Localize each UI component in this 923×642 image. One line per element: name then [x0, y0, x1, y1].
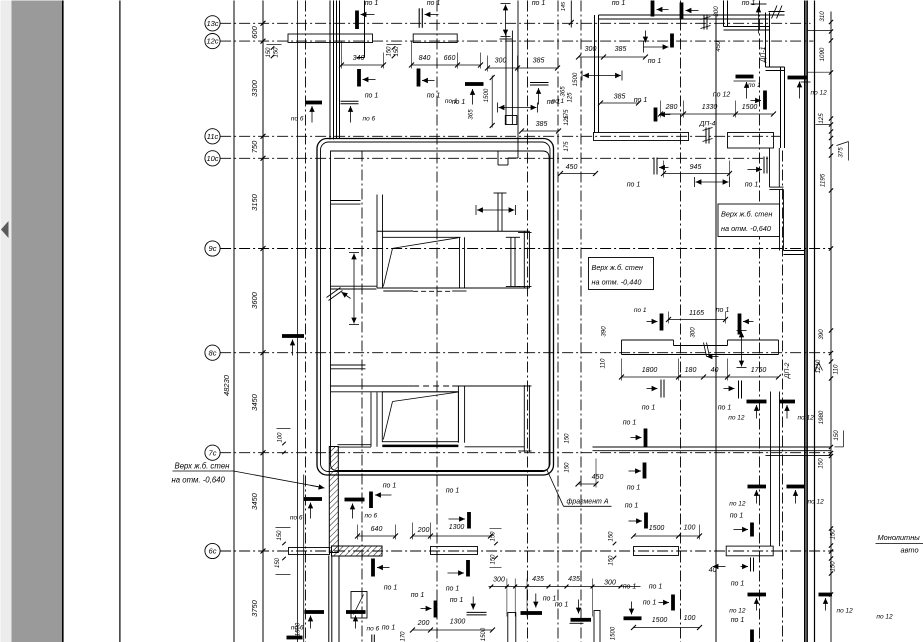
- hatched wall horizontal: [332, 546, 383, 556]
- svg-text:385: 385: [533, 58, 545, 65]
- mark hbar 465: [445, 82, 484, 105]
- svg-text:435: 435: [568, 576, 580, 583]
- svg-text:100: 100: [684, 525, 696, 532]
- rot dim 1500 x484: [481, 627, 487, 641]
- svg-text:по 1: по 1: [634, 307, 647, 314]
- vertical dim arrow between stairs: [349, 253, 359, 325]
- svg-text:ДП-2: ДП-2: [784, 362, 791, 379]
- svg-text:по 1: по 1: [547, 99, 561, 106]
- mark x370 y491: [369, 483, 396, 509]
- labels po1 below 7c: [625, 485, 641, 510]
- mark x434 y600: [411, 586, 464, 618]
- dim 280 1330 1500: [658, 101, 776, 118]
- svg-text:авто: авто: [901, 546, 919, 555]
- svg-text:600: 600: [250, 25, 259, 38]
- wall band 11c right: [728, 133, 774, 149]
- wall rect 6c mid: [431, 547, 478, 555]
- vertical dblarrow x505: [500, 4, 513, 40]
- dim 200 1300 y529: [410, 523, 493, 540]
- vertical line x297: [297, 1, 299, 642]
- svg-text:150: 150: [565, 433, 571, 444]
- svg-text:по 1: по 1: [446, 586, 460, 593]
- dimension 150 150 at 12c: [266, 45, 282, 59]
- svg-text:450: 450: [715, 41, 722, 52]
- vertical grid x580: [580, 1, 582, 642]
- grid bubble 7c: [205, 445, 220, 460]
- svg-text:по 1: по 1: [731, 581, 745, 588]
- dp2 label: [784, 362, 791, 379]
- svg-text:по 12: по 12: [876, 614, 893, 621]
- svg-text:365: 365: [468, 109, 475, 120]
- svg-text:7с: 7с: [209, 448, 217, 457]
- dp1 label: [760, 46, 767, 63]
- svg-text:на отм. -0,640: на отм. -0,640: [172, 476, 226, 485]
- grid line 6c: [220, 550, 833, 552]
- svg-text:по 12: по 12: [729, 501, 746, 508]
- dim 385 y96: [598, 94, 641, 106]
- marks y497: [290, 497, 378, 521]
- vertical grid x527: [527, 1, 529, 642]
- note box -0,440: [589, 258, 654, 290]
- label po12 x721: [713, 92, 731, 99]
- top right wall x723: [724, 1, 728, 27]
- wall pair x336 top: [337, 1, 340, 139]
- dim 1500 100 y620: [631, 615, 702, 630]
- svg-text:150: 150: [830, 561, 837, 572]
- dim 300 385 right: [576, 46, 648, 59]
- dim 945: [661, 161, 732, 178]
- wall y250 segment: [784, 251, 805, 255]
- top right wall x765: [766, 13, 770, 68]
- svg-text:3150: 3150: [250, 193, 259, 211]
- svg-text:1500: 1500: [649, 525, 665, 532]
- grid x361 in room: [361, 151, 363, 642]
- svg-text:150: 150: [387, 46, 393, 57]
- svg-text:по 1: по 1: [718, 405, 732, 412]
- svg-text:450: 450: [592, 474, 604, 481]
- svg-text:Верх ж.б. стен: Верх ж.б. стен: [175, 462, 231, 471]
- dim 1165: [666, 310, 728, 324]
- right dim 150: [818, 458, 825, 469]
- grid bubble 10c: [205, 151, 220, 166]
- grid bubble 12c: [205, 34, 220, 49]
- svg-text:по 1: по 1: [384, 585, 398, 592]
- right dim 390: [818, 329, 825, 340]
- svg-text:по 6: по 6: [365, 513, 378, 520]
- wall line x715: [715, 15, 717, 642]
- grid line 12c: [220, 40, 813, 42]
- rebar mark row top: [355, 1, 698, 30]
- wall below hatch: [329, 556, 339, 642]
- dimension 3600: [250, 291, 259, 309]
- svg-text:1500: 1500: [742, 104, 758, 111]
- interior wall y285: [331, 286, 377, 289]
- dim 40 6c: [709, 564, 726, 574]
- vertical grid x782: [782, 151, 784, 642]
- svg-text:по 1: по 1: [745, 182, 759, 189]
- svg-text:по 1: по 1: [649, 584, 663, 591]
- grid line 8c: [220, 352, 831, 354]
- svg-text:по 12: по 12: [713, 92, 731, 99]
- interior wall y364: [331, 365, 366, 369]
- svg-text:1165: 1165: [689, 310, 704, 317]
- mark x645 y428: [623, 420, 648, 447]
- dim 1500 100 y529: [631, 525, 702, 540]
- svg-text:по 1: по 1: [427, 0, 441, 7]
- mark hbar 818 y594: [819, 593, 854, 615]
- svg-text:340: 340: [353, 55, 365, 62]
- right dim 310: [819, 11, 826, 22]
- svg-text:150: 150: [266, 47, 272, 58]
- svg-text:150: 150: [275, 557, 281, 568]
- dimension 3150: [250, 193, 259, 211]
- mark dblline 530: [530, 83, 564, 106]
- svg-text:по 1: по 1: [716, 307, 730, 314]
- section mark left wall: [327, 288, 351, 301]
- dblarrow 945: [695, 177, 730, 187]
- section mark x751: [741, 558, 754, 572]
- section pair x372 bottom: [372, 635, 375, 642]
- bottom stair outline: [351, 592, 367, 619]
- grid bubble 8c: [205, 345, 220, 360]
- upper stair neck wall: [494, 193, 507, 231]
- label po1 x736 y516: [730, 513, 744, 520]
- svg-text:640: 640: [371, 526, 383, 533]
- top wall notch: [498, 151, 518, 165]
- dimension 3450: [250, 393, 259, 411]
- scrollbar track strip: [1, 1, 12, 642]
- section mark 8c band: [704, 343, 710, 357]
- svg-text:385: 385: [615, 46, 627, 53]
- svg-text:1300: 1300: [450, 619, 466, 626]
- wall rect 6c far right: [726, 546, 773, 556]
- mark hbar 570 y619: [570, 600, 592, 624]
- mark x372 y559: [371, 559, 397, 592]
- svg-text:по 1: по 1: [365, 93, 379, 100]
- svg-text:фрагмент А: фрагмент А: [567, 499, 609, 506]
- rot dims 1500 365 left: [560, 72, 580, 97]
- svg-text:750: 750: [250, 140, 259, 153]
- dimension ticks right chain: [829, 20, 833, 597]
- right dim 110: [833, 364, 840, 374]
- svg-text:по 1: по 1: [748, 82, 761, 89]
- mark hbar 786 y486: [787, 485, 825, 506]
- svg-text:840: 840: [419, 55, 431, 62]
- svg-text:150: 150: [565, 462, 571, 473]
- svg-text:125: 125: [564, 115, 570, 126]
- svg-text:по 1: по 1: [383, 483, 397, 490]
- mark x671 y33: [643, 31, 674, 53]
- rot dims 365 1500 center: [468, 75, 495, 128]
- svg-text:300: 300: [604, 579, 616, 586]
- svg-text:310: 310: [819, 11, 826, 22]
- svg-text:ДП-4: ДП-4: [699, 121, 716, 128]
- svg-text:Монолитны: Монолитны: [878, 533, 921, 542]
- svg-text:1210: 1210: [815, 359, 822, 373]
- dimension 3300: [250, 79, 259, 97]
- svg-text:40: 40: [711, 367, 719, 374]
- wall thick x805: [805, 1, 807, 642]
- svg-text:110: 110: [600, 358, 607, 368]
- svg-text:1195: 1195: [820, 173, 827, 187]
- svg-text:Верх ж.б. стен: Верх ж.б. стен: [592, 263, 643, 272]
- label po1 x452: [446, 488, 471, 529]
- svg-text:по 12: по 12: [808, 499, 825, 506]
- mark x358: [357, 69, 378, 100]
- vertical grid x680: [680, 1, 682, 642]
- mark x661 y313: [634, 307, 664, 331]
- svg-text:375: 375: [838, 147, 845, 158]
- mark dblhbar 465 y612: [467, 597, 487, 615]
- vert dblarrow x741: [737, 331, 747, 368]
- svg-text:по 1: по 1: [427, 93, 441, 100]
- svg-text:9с: 9с: [209, 244, 217, 253]
- svg-text:435: 435: [532, 576, 544, 583]
- mark vbar 751 bottom: [750, 630, 754, 642]
- dim 840 660: [409, 42, 483, 69]
- wall band 8c: [622, 340, 779, 355]
- mark x739 y313: [716, 307, 754, 335]
- grid bubble 9c: [205, 241, 220, 256]
- svg-text:1500: 1500: [296, 622, 302, 636]
- hatch pattern def: [0, 0, 2, 2]
- svg-text:13с: 13с: [206, 19, 218, 28]
- right dim 1210: [815, 359, 822, 373]
- section mark top right: [769, 6, 785, 19]
- right dim 150: [830, 561, 837, 572]
- svg-text:по 6: по 6: [363, 116, 376, 123]
- svg-text:145: 145: [561, 1, 567, 11]
- svg-text:48230: 48230: [222, 374, 231, 396]
- svg-text:300: 300: [495, 58, 507, 65]
- svg-text:по 1: по 1: [625, 503, 639, 510]
- svg-text:300: 300: [585, 46, 597, 53]
- svg-text:по 12: по 12: [837, 608, 854, 615]
- mark hbar 787 y77: [788, 76, 828, 99]
- svg-text:150: 150: [491, 531, 497, 542]
- lower stair block: [331, 385, 532, 452]
- svg-text:150: 150: [274, 47, 280, 58]
- svg-text:1800: 1800: [642, 367, 658, 374]
- section mark x662: [642, 380, 664, 412]
- ramp room inner wall: [331, 151, 550, 471]
- dimension 48230: [222, 374, 231, 396]
- rot dim 300 x717: [713, 6, 720, 17]
- ramp room outer inner line: [321, 142, 551, 472]
- svg-text:1760: 1760: [751, 367, 767, 374]
- svg-text:1980: 1980: [818, 410, 825, 424]
- svg-text:150: 150: [818, 458, 825, 469]
- break mark 1210: [815, 363, 823, 373]
- double arrow y107: [498, 103, 538, 113]
- wall rect 6c right: [634, 547, 679, 556]
- svg-text:по 1: по 1: [627, 485, 641, 492]
- dim 450 y167: [558, 164, 598, 176]
- label po 1 top: [532, 0, 546, 7]
- sidebar collapse triangle: [1, 221, 9, 238]
- vertical line x303 bottom: [303, 475, 305, 642]
- bottom marks hbars: [291, 610, 396, 632]
- rot dim 125 y96: [568, 92, 574, 103]
- svg-text:150: 150: [609, 531, 615, 542]
- svg-text:6с: 6с: [209, 547, 217, 556]
- wall x769 segment: [770, 148, 780, 187]
- right dim 125: [818, 113, 825, 124]
- labels po1 6c right: [731, 617, 745, 624]
- mark x764 y90: [751, 91, 767, 110]
- svg-text:по 1: по 1: [623, 584, 637, 591]
- svg-text:150: 150: [833, 430, 840, 441]
- mark hbar 623 y618: [624, 600, 657, 621]
- grid bubble 11c: [205, 129, 220, 144]
- top right room top wall: [599, 15, 769, 19]
- grid line 10c: [220, 157, 769, 159]
- label po 1 top: [365, 0, 379, 7]
- mark hbar 281 y335: [282, 334, 304, 355]
- wall x782 segment: [780, 190, 784, 251]
- dim 385 y124: [519, 121, 561, 133]
- svg-text:1500: 1500: [483, 88, 490, 102]
- wall x364 top: [357, 1, 365, 58]
- svg-text:390: 390: [601, 326, 608, 337]
- svg-text:по 12: по 12: [811, 90, 828, 97]
- dimension 750: [250, 140, 259, 153]
- svg-text:8с: 8с: [209, 348, 217, 357]
- svg-text:945: 945: [690, 164, 702, 171]
- rot dim 125 y119: [564, 115, 570, 126]
- svg-text:по 1: по 1: [411, 592, 425, 599]
- svg-text:3450: 3450: [250, 393, 259, 411]
- grid line 7c: [220, 452, 831, 454]
- dimension 150 150 at 6c: [275, 528, 291, 575]
- svg-text:150: 150: [830, 529, 837, 540]
- wall y188 segment: [770, 187, 784, 189]
- svg-text:3750: 3750: [250, 599, 259, 617]
- svg-text:по 1: по 1: [627, 182, 641, 189]
- dimension 3750 bottom: [253, 597, 255, 599]
- top right room left wall: [595, 15, 599, 133]
- svg-text:по 1: по 1: [742, 0, 756, 7]
- svg-text:385: 385: [536, 121, 548, 128]
- top right wall y26: [724, 27, 770, 31]
- svg-text:11с: 11с: [207, 132, 219, 141]
- svg-text:385: 385: [614, 94, 626, 101]
- no1 labels y102: [452, 99, 561, 106]
- grid line 11c: [220, 135, 780, 137]
- svg-text:660: 660: [444, 55, 456, 62]
- dimension 3750: [250, 599, 259, 617]
- mark 12c left pair: [291, 101, 376, 123]
- svg-text:по 12: по 12: [798, 415, 815, 422]
- labels po1 x629: [623, 584, 637, 591]
- rot dims 390 300 8c: [600, 326, 697, 369]
- svg-text:по 12: по 12: [728, 415, 745, 422]
- label po1 x737: [731, 581, 745, 588]
- label po 1 top: [427, 0, 441, 7]
- mark hbar 779 y401: [780, 400, 815, 422]
- mark x644 y462: [629, 463, 647, 479]
- label po 1 top: [742, 0, 756, 7]
- left border vertical: [233, 1, 235, 642]
- svg-text:450: 450: [566, 164, 578, 171]
- svg-text:12с: 12с: [206, 37, 218, 46]
- top right wall x780: [781, 67, 785, 148]
- svg-text:1300: 1300: [449, 524, 465, 531]
- svg-text:1090: 1090: [819, 47, 826, 61]
- right dim 375: [838, 147, 845, 158]
- left note -0,640: [172, 462, 325, 490]
- dimension 100 at 7c: [277, 429, 291, 455]
- rot dim 175 y114: [564, 109, 570, 120]
- svg-text:10с: 10с: [206, 154, 218, 163]
- wall pair x329 top: [330, 1, 334, 140]
- dim 640: [355, 525, 398, 540]
- svg-text:по 1: по 1: [648, 58, 662, 65]
- svg-text:1500: 1500: [572, 72, 579, 86]
- right dim 1980: [818, 410, 825, 424]
- mark x672 y594: [649, 584, 675, 611]
- no1 labels y184: [627, 182, 759, 189]
- wall rect 12c right: [413, 34, 457, 43]
- labels po1 bottom center: [543, 596, 569, 609]
- svg-text:280: 280: [665, 104, 678, 111]
- rot dims 150 150 7c: [565, 433, 571, 473]
- svg-text:по 1: по 1: [612, 0, 626, 7]
- svg-text:по 1: по 1: [446, 488, 460, 495]
- svg-text:по 6: по 6: [367, 626, 380, 633]
- svg-text:125: 125: [568, 92, 574, 103]
- right dim 150: [830, 529, 837, 540]
- svg-text:по 1: по 1: [643, 600, 657, 607]
- fragment A label: [547, 470, 612, 506]
- svg-text:180: 180: [685, 367, 697, 374]
- dimension ticks on left chain: [261, 21, 266, 554]
- section marks 10c: [654, 157, 767, 175]
- svg-text:по 1: по 1: [634, 97, 648, 104]
- grid bubble 13c: [205, 16, 220, 31]
- section mark x705 top: [701, 15, 711, 30]
- wall x517 top: [517, 1, 519, 159]
- sheet inner border line: [119, 1, 121, 642]
- svg-text:по 6: по 6: [291, 116, 304, 123]
- label po 1 top: [612, 0, 626, 7]
- wall rect 6c left: [289, 548, 330, 555]
- svg-text:110: 110: [833, 364, 840, 374]
- svg-text:Верх ж.б. стен: Верх ж.б. стен: [721, 210, 772, 219]
- svg-text:100: 100: [278, 432, 284, 443]
- svg-text:300: 300: [690, 327, 697, 338]
- right dimension chain x830: [830, 12, 832, 642]
- svg-text:3600: 3600: [250, 291, 259, 309]
- monolith note right: [876, 533, 923, 555]
- svg-text:на отм. -0,440: на отм. -0,440: [592, 278, 642, 287]
- svg-text:по 12: по 12: [729, 608, 746, 615]
- 375 leader: [837, 142, 849, 161]
- svg-text:по 1: по 1: [450, 597, 464, 604]
- line x570 top: [561, 1, 574, 28]
- wall pair x508 top: [505, 31, 517, 125]
- wall rect 12c left: [288, 34, 373, 43]
- mark hbar 735 y76: [734, 75, 761, 99]
- svg-text:по 1: по 1: [365, 0, 379, 7]
- svg-text:1500: 1500: [481, 627, 487, 641]
- dimension 150 150 pair2: [387, 45, 402, 59]
- dim 340: [339, 42, 386, 69]
- right dim 150: [833, 430, 840, 441]
- dim row 1800 180 40 1760: [619, 359, 781, 381]
- svg-text:365: 365: [560, 86, 567, 97]
- note box -0,640: [718, 204, 780, 237]
